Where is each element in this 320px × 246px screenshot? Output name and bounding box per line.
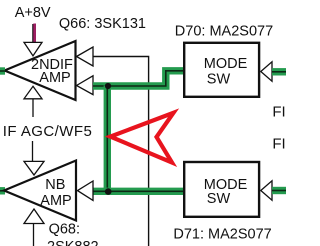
svg-text:FIL: FIL (272, 135, 286, 152)
svg-text:Q68:: Q68: (49, 222, 80, 238)
green stub at 2ND IF AMP output (left edge) (0, 67, 5, 74)
green wire right lower (to FIL) (272, 187, 286, 194)
mode switch box D71 (184, 162, 259, 217)
svg-text:NB: NB (45, 177, 65, 193)
arrow into NB AMP top (AGC input) (24, 161, 44, 175)
junction dot lower (105, 188, 112, 195)
arrow into NB AMP bottom with stem wire (24, 209, 44, 246)
svg-text:FIL: FIL (272, 103, 286, 120)
svg-text:SW: SW (207, 71, 231, 87)
arrow into NB AMP right (signal input) (78, 181, 94, 200)
junction dot upper (105, 83, 111, 89)
svg-text:Q66: 3SK131: Q66: 3SK131 (59, 16, 146, 32)
svg-text:D71: MA2S077: D71: MA2S077 (173, 227, 271, 243)
svg-text:IF AGC/WF5: IF AGC/WF5 (3, 123, 93, 140)
svg-text:SW: SW (207, 191, 231, 207)
green stub at NB AMP output (left edge) (0, 187, 5, 194)
svg-text:AMP: AMP (40, 193, 71, 209)
arrow into MODE SW D70 right (261, 62, 272, 81)
arrow into 2ND IF AMP bottom (AGC input) with stem wire (24, 86, 42, 117)
svg-text:MODE: MODE (204, 56, 248, 72)
wire from IF AGC/WF5 label down to NB AMP top arrow (32, 141, 34, 161)
red callout arrow (110, 113, 173, 163)
amplifier U1: 2ND IF AMP (5, 41, 76, 100)
svg-text:A+8V: A+8V (15, 5, 51, 21)
wire A+8V feed (magenta highlighted) (33, 24, 36, 43)
green signal wire: NB AMP to MODE SW D71 (93, 188, 184, 195)
svg-text:AMP: AMP (39, 70, 70, 86)
green wire right upper (to FIL) (272, 68, 286, 75)
mode switch box D70 (184, 43, 259, 97)
amplifier U2: NB AMP (4, 161, 76, 221)
arrow into 2ND IF AMP right lower (signal input) (77, 76, 94, 95)
arrow into MODE SW D71 right (261, 181, 272, 200)
green signal wire: 2ND IF AMP to MODE SW D70 (with jog) (93, 71, 184, 86)
arrow into 2ND IF AMP right upper (77, 47, 94, 66)
green vertical bus wire (104, 86, 111, 192)
arrow into 2ND IF AMP top (supply input) (24, 42, 42, 55)
svg-text:D70: MA2S077: D70: MA2S077 (175, 24, 273, 40)
transistor label Q68: 2SK882 (47, 222, 99, 246)
wire from upper arrow right then down to bottom edge (93, 57, 149, 246)
svg-text:2SK882: 2SK882 (47, 239, 99, 246)
